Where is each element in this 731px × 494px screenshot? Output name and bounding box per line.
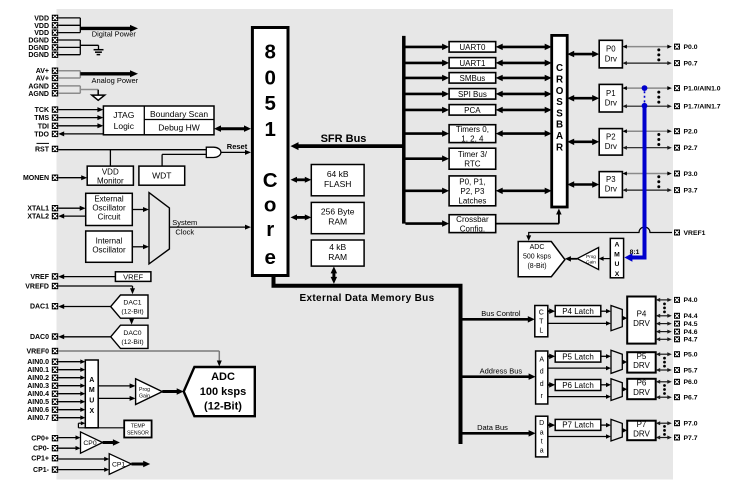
svg-text:P5.0: P5.0 (684, 352, 698, 359)
svg-text:8: 8 (264, 41, 275, 64)
svg-text:MONEN: MONEN (23, 175, 49, 182)
svg-text:AGND: AGND (28, 91, 49, 98)
svg-text:VREF: VREF (30, 274, 49, 281)
svg-text:PCA: PCA (464, 106, 481, 115)
svg-text:AIN0.6: AIN0.6 (27, 407, 49, 414)
svg-text:P6.7: P6.7 (684, 395, 698, 402)
svg-text:R: R (556, 142, 563, 153)
svg-text:d: d (540, 369, 544, 376)
svg-text:P6 Latch: P6 Latch (562, 381, 594, 390)
svg-text:Monitor: Monitor (97, 176, 124, 185)
svg-text:Bus Control: Bus Control (481, 309, 521, 318)
svg-text:Debug HW: Debug HW (158, 122, 200, 132)
svg-text:TDI: TDI (38, 123, 49, 130)
svg-text:DAC0: DAC0 (30, 334, 49, 341)
svg-text:Address Bus: Address Bus (480, 367, 523, 376)
svg-text:o: o (264, 194, 277, 217)
svg-text:P1.7/AIN1.7: P1.7/AIN1.7 (684, 104, 721, 111)
svg-text:AIN0.4: AIN0.4 (27, 391, 49, 398)
svg-text:JTAG: JTAG (113, 110, 134, 120)
svg-text:Circuit: Circuit (98, 213, 121, 222)
svg-text:CP1: CP1 (112, 462, 125, 469)
svg-text:0: 0 (264, 66, 275, 89)
svg-text:C: C (539, 309, 544, 316)
svg-text:S: S (556, 97, 563, 108)
svg-text:P6: P6 (637, 378, 647, 387)
svg-text:Drv: Drv (605, 185, 617, 194)
svg-text:CP0+: CP0+ (31, 436, 49, 443)
svg-text:P0.0: P0.0 (684, 44, 698, 51)
svg-text:AIN0.7: AIN0.7 (27, 415, 49, 422)
svg-text:P2, P3: P2, P3 (460, 187, 485, 196)
svg-text:P4.7: P4.7 (684, 337, 698, 344)
svg-text:P4.0: P4.0 (684, 297, 698, 304)
svg-text:P7.0: P7.0 (684, 421, 698, 428)
svg-text:P5: P5 (637, 352, 647, 361)
svg-text:P0.7: P0.7 (684, 60, 698, 67)
svg-text:UART1: UART1 (459, 59, 486, 68)
svg-text:TMS: TMS (34, 115, 49, 122)
svg-text:a: a (540, 429, 544, 436)
svg-text:UART0: UART0 (459, 43, 486, 52)
svg-text:RST: RST (35, 146, 50, 153)
svg-text:P3.0: P3.0 (684, 171, 698, 178)
svg-text:TDO: TDO (34, 131, 49, 138)
svg-text:Prog: Prog (139, 387, 150, 393)
svg-text:RTC: RTC (464, 159, 481, 168)
svg-text:VREF: VREF (123, 272, 143, 281)
svg-text:P5.7: P5.7 (684, 367, 698, 374)
svg-text:ADC: ADC (530, 244, 545, 251)
svg-text:1: 1 (264, 118, 275, 141)
svg-text:Data Bus: Data Bus (477, 423, 508, 432)
svg-text:Clock: Clock (175, 228, 194, 237)
svg-text:T: T (539, 318, 544, 325)
svg-text:B: B (556, 120, 563, 131)
svg-text:Crossbar: Crossbar (456, 215, 489, 224)
svg-text:DRV: DRV (633, 361, 650, 370)
svg-text:4 kB: 4 kB (329, 242, 346, 252)
svg-text:Gain: Gain (586, 260, 596, 265)
svg-text:VDD: VDD (34, 30, 49, 37)
svg-text:5: 5 (264, 92, 275, 115)
svg-text:VREFD: VREFD (25, 284, 49, 291)
svg-text:Analog Power: Analog Power (91, 76, 138, 85)
svg-text:External: External (94, 195, 124, 204)
svg-text:P1: P1 (606, 89, 616, 98)
svg-text:P4: P4 (637, 309, 647, 318)
svg-text:CP1+: CP1+ (31, 456, 49, 463)
svg-text:DRV: DRV (633, 319, 650, 328)
svg-text:DGND: DGND (28, 45, 49, 52)
svg-text:A: A (539, 356, 544, 363)
svg-text:a: a (540, 448, 544, 455)
svg-text:P6.0: P6.0 (684, 379, 698, 386)
svg-text:SFR Bus: SFR Bus (321, 133, 367, 145)
svg-text:DAC0: DAC0 (123, 330, 141, 337)
svg-text:Config.: Config. (460, 224, 485, 233)
svg-text:AIN0.1: AIN0.1 (27, 367, 49, 374)
svg-text:P4.4: P4.4 (684, 313, 698, 320)
svg-text:A: A (556, 131, 563, 142)
svg-text:Drv: Drv (605, 142, 617, 151)
svg-text:Prog: Prog (586, 254, 596, 259)
svg-text:d: d (540, 381, 544, 388)
svg-text:DAC1: DAC1 (123, 300, 141, 307)
svg-text:O: O (556, 86, 564, 97)
svg-text:X: X (615, 271, 620, 278)
svg-text:Timers 0,: Timers 0, (456, 125, 489, 134)
svg-text:AV+: AV+ (36, 76, 49, 83)
svg-text:VDD: VDD (102, 167, 119, 176)
svg-text:P2.7: P2.7 (684, 145, 698, 152)
svg-text:DGND: DGND (28, 52, 49, 59)
svg-text:RAM: RAM (328, 252, 347, 262)
svg-text:P1.0/AIN1.0: P1.0/AIN1.0 (684, 85, 721, 92)
svg-text:AV+: AV+ (36, 68, 49, 75)
svg-text:AIN0.0: AIN0.0 (27, 359, 49, 366)
svg-text:P4 Latch: P4 Latch (562, 307, 594, 316)
svg-text:P3: P3 (606, 175, 616, 184)
svg-text:CP0-: CP0- (33, 446, 50, 453)
svg-text:RAM: RAM (328, 217, 347, 227)
svg-text:SENSOR: SENSOR (127, 430, 149, 436)
svg-text:100 ksps: 100 ksps (200, 386, 246, 398)
svg-text:Oscillator: Oscillator (92, 245, 126, 254)
svg-text:Digital Power: Digital Power (92, 29, 137, 38)
svg-text:(8-Bit): (8-Bit) (527, 263, 546, 270)
svg-text:DRV: DRV (633, 429, 650, 438)
svg-text:t: t (541, 438, 543, 445)
svg-text:(12-Bit): (12-Bit) (121, 339, 143, 346)
svg-text:P0: P0 (606, 45, 616, 54)
svg-text:VREF0: VREF0 (26, 349, 49, 356)
svg-text:XTAL1: XTAL1 (27, 206, 49, 213)
svg-text:AIN0.2: AIN0.2 (27, 375, 49, 382)
svg-text:VREF1: VREF1 (684, 230, 706, 237)
svg-text:Boundary Scan: Boundary Scan (150, 109, 208, 119)
svg-text:P4.6: P4.6 (684, 329, 698, 336)
svg-text:P2: P2 (606, 132, 616, 141)
svg-text:DAC1: DAC1 (30, 304, 49, 311)
svg-text:TCK: TCK (35, 107, 49, 114)
svg-text:ADC: ADC (211, 371, 235, 383)
svg-text:AGND: AGND (28, 83, 49, 90)
svg-text:1, 2, 4: 1, 2, 4 (461, 134, 484, 143)
svg-text:M: M (89, 387, 95, 394)
svg-text:64 kB: 64 kB (327, 169, 349, 179)
svg-text:External Data Memory Bus: External Data Memory Bus (299, 293, 434, 304)
svg-text:D: D (539, 420, 544, 427)
svg-text:Oscillator: Oscillator (92, 204, 126, 213)
svg-text:AIN0.5: AIN0.5 (27, 399, 49, 406)
svg-text:P2.0: P2.0 (684, 129, 698, 136)
svg-text:M: M (614, 251, 620, 258)
svg-text:U: U (89, 398, 94, 405)
svg-text:500 ksps: 500 ksps (523, 253, 552, 260)
svg-text:WDT: WDT (152, 171, 171, 181)
svg-text:r: r (266, 218, 274, 241)
svg-text:Drv: Drv (605, 98, 617, 107)
svg-text:C: C (263, 169, 278, 192)
svg-text:FLASH: FLASH (324, 179, 351, 189)
svg-text:VDD: VDD (34, 15, 49, 22)
svg-text:P0, P1,: P0, P1, (459, 177, 485, 186)
svg-text:P4.5: P4.5 (684, 321, 698, 328)
svg-text:(12-Bit): (12-Bit) (121, 309, 143, 316)
svg-text:P7.7: P7.7 (684, 435, 698, 442)
svg-text:Timer 3/: Timer 3/ (458, 150, 488, 159)
svg-text:Gain: Gain (139, 394, 150, 400)
svg-text:CP1-: CP1- (33, 467, 50, 474)
svg-text:DGND: DGND (28, 38, 49, 45)
svg-text:VDD: VDD (34, 23, 49, 30)
svg-text:P7 Latch: P7 Latch (562, 421, 594, 430)
svg-text:Reset: Reset (227, 142, 248, 151)
svg-text:P7: P7 (637, 420, 647, 429)
svg-text:TEMP: TEMP (131, 424, 146, 430)
svg-text:A: A (89, 377, 94, 384)
svg-text:P5 Latch: P5 Latch (562, 352, 594, 361)
svg-text:XTAL2: XTAL2 (27, 214, 49, 221)
svg-text:CP0: CP0 (83, 440, 96, 447)
svg-text:S: S (556, 108, 563, 119)
svg-text:AIN0.3: AIN0.3 (27, 383, 49, 390)
svg-text:A: A (615, 242, 620, 249)
svg-text:C: C (556, 63, 563, 74)
svg-text:X: X (89, 408, 94, 415)
svg-text:(12-Bit): (12-Bit) (204, 401, 242, 413)
svg-text:L: L (539, 328, 543, 335)
svg-text:Logic: Logic (114, 121, 135, 131)
svg-text:Latches: Latches (458, 196, 486, 205)
svg-text:256 Byte: 256 Byte (321, 207, 355, 217)
svg-text:P3.7: P3.7 (684, 187, 698, 194)
svg-text:U: U (615, 261, 620, 268)
svg-text:System: System (172, 218, 197, 227)
svg-text:DRV: DRV (633, 388, 650, 397)
svg-text:e: e (264, 246, 275, 269)
svg-text:Internal: Internal (96, 236, 123, 245)
svg-text:SPI Bus: SPI Bus (458, 90, 487, 99)
svg-text:SMBus: SMBus (460, 74, 486, 83)
svg-text:R: R (556, 75, 563, 86)
svg-text:Drv: Drv (605, 54, 617, 63)
